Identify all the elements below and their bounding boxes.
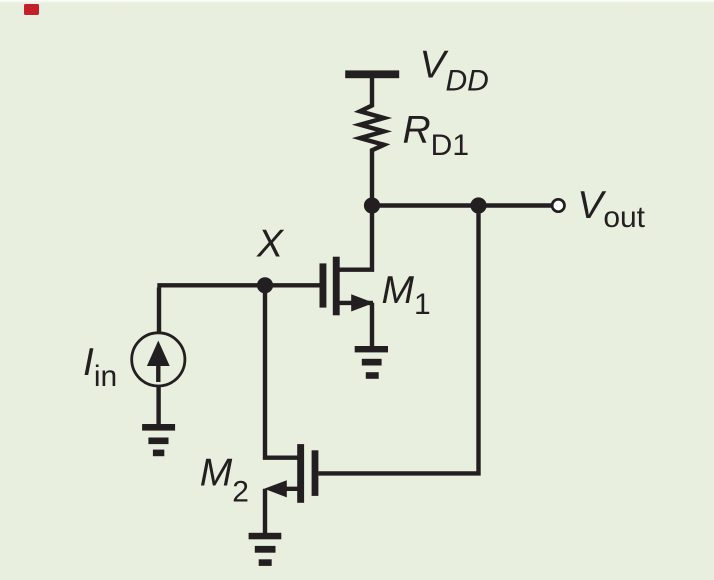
ground under Iin [142,424,175,456]
svg-text:M1: M1 [382,269,431,321]
ground under M1 [355,346,388,379]
M2 source arrow [264,480,287,497]
node X dot [257,277,273,293]
svg-text:VDD: VDD [420,44,489,98]
svg-text:Iin: Iin [83,341,117,393]
wire X to M2 drain [265,283,299,458]
wire M1 source vertical [370,303,374,349]
current source Iin circle [132,333,185,386]
node dot feedback junction [470,197,486,213]
red corner mark [24,4,39,15]
ground under M2 [249,533,282,566]
wire M2 source horizontal [280,487,299,491]
wire Iin bottom vertical [156,385,160,426]
wire M2 gate feedback [318,204,478,473]
M1 source arrow [351,294,374,311]
resistor RD1 [360,76,384,205]
wire output horizontal [372,203,552,207]
transistor M1 gate bar [320,263,327,307]
transistor M1 channel bar [333,257,340,316]
wire M2 source vertical [263,489,267,536]
node dot drain junction [364,197,380,213]
wire Iin top vertical [157,288,161,335]
current source arrow up [147,341,170,367]
wire M1 drain [338,203,372,270]
svg-text:M2: M2 [200,452,249,509]
transistor M2 channel bar [297,444,304,503]
wire gate X horizontal [157,283,319,287]
top white edge band [0,0,714,5]
svg-text:RD1: RD1 [403,108,470,162]
output terminal open circle [552,199,564,211]
svg-text:Vout: Vout [577,184,645,234]
VDD supply bar [345,70,399,78]
wire M1 source horizontal [338,301,373,305]
svg-text:X: X [256,223,285,266]
transistor M2 gate bar [312,450,319,496]
current source arrow tail [156,362,160,382]
